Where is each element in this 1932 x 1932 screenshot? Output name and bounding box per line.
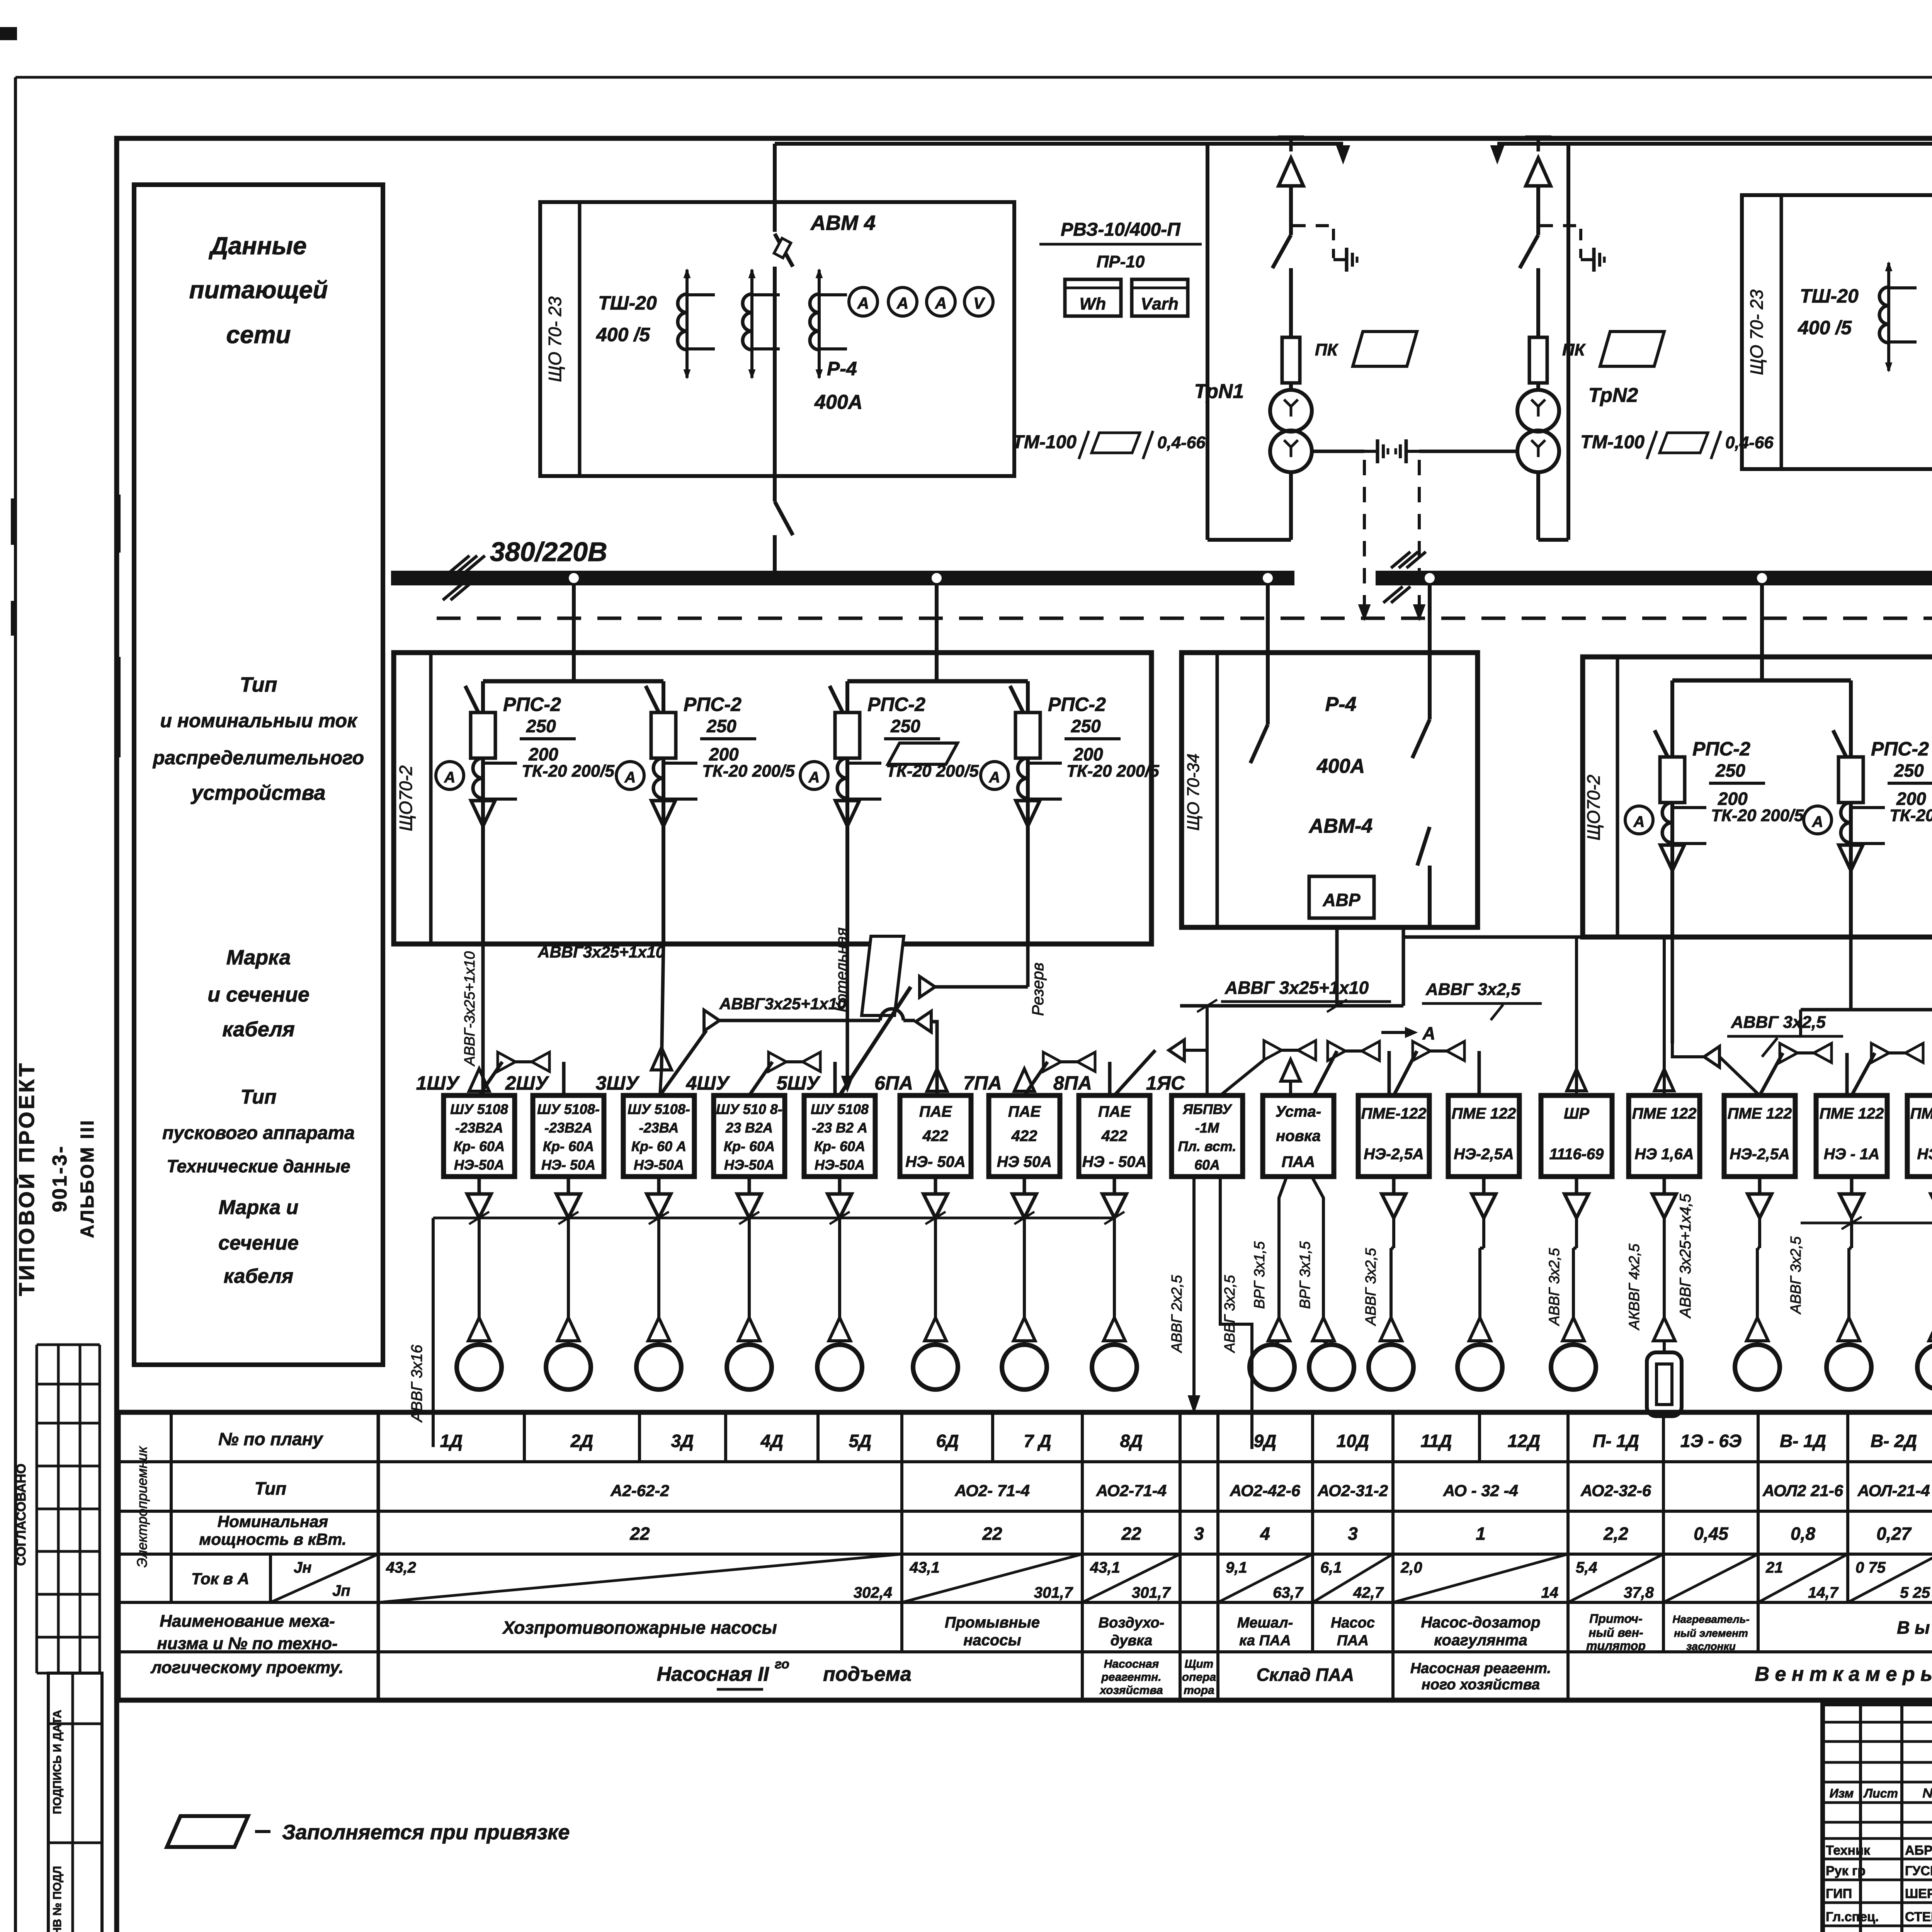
svg-text:Пл. вст.: Пл. вст. — [1178, 1138, 1236, 1154]
svg-text:ВРГ 3х1,5: ВРГ 3х1,5 — [1252, 1241, 1268, 1309]
svg-text:ПК: ПК — [1315, 340, 1339, 359]
svg-text:НЭ-50А: НЭ-50А — [634, 1157, 684, 1173]
svg-text:реагентн.: реагентн. — [1101, 1671, 1161, 1684]
svg-text:ТК-20 200/5: ТК-20 200/5 — [886, 762, 979, 781]
svg-text:Wh: Wh — [1080, 294, 1106, 313]
svg-text:НЭ - 50А: НЭ - 50А — [1082, 1153, 1147, 1170]
svg-text:400 /5: 400 /5 — [1798, 317, 1852, 338]
svg-text:250: 250 — [526, 716, 556, 736]
svg-text:А: А — [1422, 1023, 1435, 1043]
svg-text:А: А — [896, 294, 908, 312]
svg-text:хозяйства: хозяйства — [1099, 1684, 1163, 1697]
svg-text:В- 2Д: В- 2Д — [1871, 1431, 1917, 1451]
svg-text:А: А — [857, 294, 869, 312]
svg-text:12Д: 12Д — [1508, 1431, 1540, 1451]
svg-text:Данные: Данные — [208, 232, 306, 260]
svg-text:400А: 400А — [814, 391, 862, 413]
svg-text:новка: новка — [1276, 1128, 1321, 1145]
svg-text:ный элемент: ный элемент — [1674, 1627, 1748, 1639]
svg-text:43,1: 43,1 — [1090, 1559, 1120, 1576]
svg-text:ШУ 5108-: ШУ 5108- — [628, 1101, 690, 1117]
svg-text:АВВГ3х25+1х10: АВВГ3х25+1х10 — [537, 943, 665, 961]
svg-text:Наименование меха-: Наименование меха- — [160, 1612, 335, 1631]
svg-text:Кр- 60А: Кр- 60А — [543, 1138, 594, 1154]
svg-text:ПАА: ПАА — [1282, 1153, 1315, 1170]
svg-text:ШУ 5108: ШУ 5108 — [450, 1101, 508, 1117]
svg-text:-23В2А: -23В2А — [455, 1120, 503, 1136]
svg-text:ПК: ПК — [1562, 340, 1586, 359]
svg-text:Кр- 60А: Кр- 60А — [454, 1138, 505, 1154]
svg-text:РПС-2: РПС-2 — [684, 694, 742, 715]
svg-text:4ШУ: 4ШУ — [686, 1072, 731, 1094]
svg-text:сети: сети — [226, 321, 291, 349]
svg-text:ПР-10: ПР-10 — [1097, 252, 1145, 271]
svg-text:Р-4: Р-4 — [827, 358, 857, 379]
svg-text:ГУСЕВА: ГУСЕВА — [1905, 1864, 1932, 1878]
svg-text:10Д: 10Д — [1337, 1431, 1369, 1451]
svg-text:1116-69: 1116-69 — [1549, 1146, 1604, 1163]
svg-text:ный вен-: ный вен- — [1588, 1626, 1643, 1639]
svg-text:42,7: 42,7 — [1353, 1584, 1384, 1601]
svg-text:ШЕРСТЯКОВА: ШЕРСТЯКОВА — [1905, 1886, 1932, 1901]
svg-text:ТИПОВОЙ ПРОЕКТ: ТИПОВОЙ ПРОЕКТ — [14, 1061, 39, 1296]
svg-text:ГИП: ГИП — [1826, 1886, 1852, 1901]
svg-text:7 Д: 7 Д — [1024, 1431, 1051, 1451]
svg-text:Тип: Тип — [240, 1086, 276, 1108]
svg-text:Промывные: Промывные — [945, 1614, 1040, 1631]
svg-text:тилятор: тилятор — [1586, 1639, 1646, 1653]
svg-text:НЭ- 50А: НЭ- 50А — [541, 1157, 595, 1173]
svg-text:А2-62-2: А2-62-2 — [610, 1481, 669, 1500]
svg-text:Рук гр: Рук гр — [1826, 1864, 1866, 1878]
svg-text:АВВГ3х25+1х10: АВВГ3х25+1х10 — [719, 995, 846, 1013]
svg-text:АВВГ-3х25+1х10: АВВГ-3х25+1х10 — [462, 951, 478, 1066]
svg-text:АВМ-4: АВМ-4 — [1308, 815, 1373, 837]
svg-text:НЭ- 50А: НЭ- 50А — [905, 1153, 965, 1170]
svg-text:АОЛ-21-4: АОЛ-21-4 — [1857, 1481, 1930, 1500]
svg-text:1Э - 6Э: 1Э - 6Э — [1680, 1431, 1742, 1451]
svg-text:ТрN2: ТрN2 — [1588, 384, 1638, 406]
svg-text:ПОДПИСЬ И ДАТА: ПОДПИСЬ И ДАТА — [51, 1710, 64, 1814]
svg-text:43,2: 43,2 — [386, 1559, 416, 1576]
svg-text:901-3-: 901-3- — [49, 1145, 71, 1212]
svg-text:АВВГ 3х2,5: АВВГ 3х2,5 — [1425, 980, 1520, 999]
svg-text:Кр- 60А: Кр- 60А — [724, 1138, 775, 1154]
svg-text:1ШУ: 1ШУ — [416, 1072, 461, 1094]
svg-text:го: го — [775, 1657, 789, 1672]
svg-text:3ШУ: 3ШУ — [596, 1072, 640, 1094]
svg-text:14,7: 14,7 — [1808, 1584, 1839, 1601]
svg-text:АВВГ 3х2,5: АВВГ 3х2,5 — [1731, 1013, 1826, 1032]
svg-text:8Д: 8Д — [1120, 1431, 1143, 1451]
svg-text:подъема: подъема — [823, 1663, 912, 1685]
svg-text:400А: 400А — [1316, 755, 1365, 777]
svg-text:мощность в кВт.: мощность в кВт. — [199, 1530, 346, 1548]
svg-text:тора: тора — [1184, 1684, 1214, 1697]
svg-text:дувка: дувка — [1111, 1633, 1152, 1649]
svg-text:ТМ-100: ТМ-100 — [1580, 432, 1645, 452]
svg-text:ПМЕ-122: ПМЕ-122 — [1361, 1105, 1427, 1122]
svg-text:-23ВА: -23ВА — [639, 1120, 679, 1136]
svg-text:2ШУ: 2ШУ — [505, 1072, 550, 1094]
svg-text:250: 250 — [706, 716, 736, 736]
svg-text:Мешал-: Мешал- — [1237, 1615, 1293, 1631]
svg-text:Насосная реагент.: Насосная реагент. — [1410, 1660, 1551, 1677]
svg-text:4: 4 — [1260, 1524, 1270, 1544]
svg-text:ного хозяйства: ного хозяйства — [1422, 1677, 1540, 1693]
svg-text:В- 1Д: В- 1Д — [1780, 1431, 1826, 1451]
svg-text:3: 3 — [1194, 1524, 1204, 1544]
svg-text:ЩО 70- 23: ЩО 70- 23 — [1747, 289, 1767, 375]
svg-text:АВВГ 3х2,5: АВВГ 3х2,5 — [1363, 1248, 1379, 1326]
svg-text:Кр- 60А: Кр- 60А — [814, 1138, 865, 1154]
svg-text:ка ПАА: ка ПАА — [1239, 1633, 1291, 1649]
svg-text:и сечение: и сечение — [207, 983, 310, 1006]
svg-text:ПМЕ 122: ПМЕ 122 — [1632, 1105, 1697, 1122]
svg-text:ШУ 5108: ШУ 5108 — [811, 1101, 869, 1117]
svg-text:насосы: насосы — [963, 1632, 1021, 1649]
svg-text:Технические данные: Технические данные — [167, 1156, 350, 1176]
svg-text:ПАЕ: ПАЕ — [919, 1103, 952, 1120]
svg-text:коагулянта: коагулянта — [1434, 1632, 1527, 1649]
svg-text:7ПА: 7ПА — [963, 1072, 1002, 1094]
svg-text:Электроприемник: Электроприемник — [134, 1446, 150, 1567]
svg-text:6Д: 6Д — [936, 1431, 959, 1451]
svg-text:ПМЕ 122: ПМЕ 122 — [1452, 1105, 1516, 1122]
svg-text:Уста-: Уста- — [1276, 1103, 1321, 1120]
svg-text:Нагреватель-: Нагреватель- — [1672, 1613, 1749, 1625]
svg-text:Насос: Насос — [1331, 1615, 1375, 1631]
svg-text:ПМЕ 122: ПМЕ 122 — [1820, 1105, 1884, 1122]
svg-text:2,2: 2,2 — [1603, 1524, 1628, 1544]
svg-text:пускового аппарата: пускового аппарата — [162, 1123, 355, 1143]
svg-text:43,1: 43,1 — [909, 1559, 940, 1576]
svg-text:А: А — [808, 769, 820, 786]
svg-text:НЭ - 1А: НЭ - 1А — [1824, 1146, 1879, 1163]
svg-text:Р-4: Р-4 — [1325, 693, 1357, 716]
svg-text:Приточ-: Приточ- — [1589, 1612, 1642, 1626]
svg-text:250: 250 — [1894, 760, 1924, 781]
svg-text:ШР: ШР — [1564, 1105, 1589, 1122]
svg-text:Тип: Тип — [240, 673, 277, 696]
svg-text:ЩО 70-34: ЩО 70-34 — [1184, 753, 1203, 831]
svg-text:22: 22 — [629, 1524, 650, 1544]
svg-text:АВМ 4: АВМ 4 — [810, 211, 876, 235]
svg-text:АВВГ 3х2,5: АВВГ 3х2,5 — [1546, 1248, 1563, 1326]
svg-text:6ПА: 6ПА — [874, 1072, 913, 1094]
svg-text:сечение: сечение — [218, 1232, 299, 1254]
svg-text:Номинальная: Номинальная — [218, 1512, 328, 1531]
svg-text:2Д: 2Д — [570, 1431, 594, 1451]
svg-text:ЩО70-2: ЩО70-2 — [396, 765, 416, 831]
svg-text:Насосная: Насосная — [1104, 1658, 1159, 1670]
svg-text:60А: 60А — [1194, 1157, 1220, 1173]
svg-text:АО2-71-4: АО2-71-4 — [1096, 1481, 1167, 1500]
svg-text:В е н т к а м е р ы: В е н т к а м е р ы — [1755, 1663, 1932, 1685]
svg-text:2,0: 2,0 — [1400, 1559, 1422, 1576]
svg-text:5ШУ: 5ШУ — [777, 1072, 821, 1094]
svg-text:ШУ 510 8-: ШУ 510 8- — [716, 1101, 782, 1117]
svg-text:Гл.спец.: Гл.спец. — [1826, 1910, 1879, 1924]
svg-text:Резерв: Резерв — [1029, 963, 1047, 1016]
svg-text:422: 422 — [1011, 1128, 1037, 1145]
svg-text:АО2-32-6: АО2-32-6 — [1580, 1481, 1651, 1500]
svg-text:питающей: питающей — [189, 276, 328, 304]
svg-text:П- 1Д: П- 1Д — [1593, 1431, 1639, 1451]
svg-text:СОГЛАСОВАНО: СОГЛАСОВАНО — [14, 1464, 29, 1566]
svg-text:АВВГ 3х2,5: АВВГ 3х2,5 — [1222, 1275, 1238, 1353]
svg-text:0,4-66: 0,4-66 — [1725, 433, 1774, 452]
svg-text:5 25: 5 25 — [1900, 1584, 1930, 1601]
svg-text:0 75: 0 75 — [1855, 1559, 1886, 1576]
svg-text:АОЛ2 21-6: АОЛ2 21-6 — [1762, 1481, 1844, 1500]
svg-text:и номинальныи ток: и номинальныи ток — [160, 710, 358, 731]
svg-text:Ток в А: Ток в А — [191, 1570, 249, 1588]
svg-text:ШУ 5108-: ШУ 5108- — [537, 1101, 600, 1117]
svg-text:63,7: 63,7 — [1273, 1584, 1304, 1601]
svg-text:ЯБПВУ: ЯБПВУ — [1182, 1101, 1232, 1117]
svg-text:ПАЕ: ПАЕ — [1008, 1103, 1041, 1120]
svg-text:АО2-31-2: АО2-31-2 — [1317, 1481, 1388, 1500]
svg-text:250: 250 — [890, 716, 920, 736]
svg-text:ТрN1: ТрN1 — [1194, 380, 1244, 403]
svg-text:0,27: 0,27 — [1876, 1524, 1912, 1544]
svg-text:АО - 32 -4: АО - 32 -4 — [1443, 1481, 1518, 1500]
svg-text:ТК-20 200/5: ТК-20 200/5 — [1711, 806, 1804, 825]
svg-text:Воздухо-: Воздухо- — [1099, 1615, 1165, 1631]
svg-text:А: А — [989, 769, 1000, 786]
svg-text:ПАЕ: ПАЕ — [1098, 1103, 1131, 1120]
svg-text:ИНВ № ПОДЛ: ИНВ № ПОДЛ — [51, 1866, 64, 1932]
svg-text:0,45: 0,45 — [1694, 1524, 1729, 1544]
svg-text:НЭ- 1А: НЭ- 1А — [1917, 1146, 1932, 1163]
svg-text:АБРОСИМОВА: АБРОСИМОВА — [1905, 1843, 1932, 1858]
svg-text:опера: опера — [1182, 1671, 1216, 1684]
svg-text:АО2-42-6: АО2-42-6 — [1230, 1481, 1301, 1500]
svg-text:АО2- 71-4: АО2- 71-4 — [954, 1481, 1030, 1500]
svg-text:-23В2А: -23В2А — [544, 1120, 592, 1136]
svg-text:21: 21 — [1765, 1559, 1783, 1576]
svg-text:250: 250 — [1071, 716, 1101, 736]
svg-text:АКВВГ 4х2,5: АКВВГ 4х2,5 — [1626, 1243, 1643, 1330]
svg-text:ВРГ 3х1,5: ВРГ 3х1,5 — [1297, 1241, 1313, 1309]
svg-text:ТК-20 200/5: ТК-20 200/5 — [1889, 806, 1932, 825]
svg-text:-1М: -1М — [1195, 1120, 1219, 1136]
svg-text:23 В2А: 23 В2А — [725, 1120, 773, 1136]
svg-text:422: 422 — [1101, 1128, 1128, 1145]
svg-text:0,4-66: 0,4-66 — [1157, 433, 1206, 452]
svg-text:301,7: 301,7 — [1034, 1584, 1073, 1601]
svg-text:АЛЬБОМ III: АЛЬБОМ III — [77, 1119, 98, 1238]
svg-text:22: 22 — [1121, 1524, 1141, 1544]
svg-text:НЭ-50А: НЭ-50А — [724, 1157, 774, 1173]
svg-text:Vаrh: Vаrh — [1141, 294, 1179, 313]
svg-text:заслонки: заслонки — [1686, 1640, 1736, 1652]
svg-text:Марка и: Марка и — [219, 1196, 299, 1219]
svg-text:СТЕПАНЕНКО: СТЕПАНЕНКО — [1905, 1910, 1932, 1924]
svg-text:РПС-2: РПС-2 — [1048, 694, 1106, 715]
svg-text:Изм: Изм — [1830, 1786, 1854, 1800]
svg-text:АВВГ 3х25+1х4,5: АВВГ 3х25+1х4,5 — [1677, 1194, 1694, 1319]
svg-text:ПАА: ПАА — [1337, 1633, 1369, 1649]
svg-text:8ПА: 8ПА — [1053, 1072, 1092, 1094]
svg-text:ТШ-20: ТШ-20 — [598, 292, 657, 314]
svg-text:1: 1 — [1476, 1524, 1486, 1544]
svg-text:Хозпротивопожарные насосы: Хозпротивопожарные насосы — [502, 1617, 777, 1638]
svg-text:РВЗ-10/400-П: РВЗ-10/400-П — [1061, 219, 1181, 240]
svg-text:Jп: Jп — [332, 1582, 350, 1599]
svg-text:V: V — [973, 294, 985, 312]
svg-text:В ы т я ж н ы е вентилято: В ы т я ж н ы е вентиляторы — [1897, 1617, 1932, 1638]
svg-text:400 /5: 400 /5 — [596, 324, 650, 345]
svg-text:ТК-20 200/5: ТК-20 200/5 — [1066, 762, 1159, 781]
svg-text:Jн: Jн — [294, 1559, 311, 1576]
svg-text:А: А — [444, 769, 456, 786]
svg-text:ЩО 70- 23: ЩО 70- 23 — [545, 296, 565, 382]
svg-text:ТК-20 200/5: ТК-20 200/5 — [522, 762, 614, 781]
svg-text:22: 22 — [982, 1524, 1002, 1544]
svg-text:НЭ-50А: НЭ-50А — [454, 1157, 504, 1173]
svg-text:1ЯС: 1ЯС — [1146, 1072, 1185, 1094]
svg-text:6,1: 6,1 — [1320, 1559, 1342, 1576]
svg-text:9,1: 9,1 — [1226, 1559, 1247, 1576]
svg-text:НЭ-2,5А: НЭ-2,5А — [1364, 1146, 1423, 1163]
svg-text:3: 3 — [1348, 1524, 1358, 1544]
svg-text:А: А — [935, 294, 947, 312]
svg-text:РПС-2: РПС-2 — [867, 694, 925, 715]
svg-text:301,7: 301,7 — [1132, 1584, 1171, 1601]
svg-text:НЭ-50А: НЭ-50А — [815, 1157, 865, 1173]
svg-text:№ докум.: № докум. — [1922, 1786, 1932, 1801]
svg-text:11Д: 11Д — [1421, 1431, 1452, 1451]
svg-text:Склад ПАА: Склад ПАА — [1257, 1665, 1354, 1685]
svg-text:логическому проекту.: логическому проекту. — [150, 1658, 344, 1677]
svg-text:АВВГ 3х25+1х10: АВВГ 3х25+1х10 — [1225, 978, 1369, 998]
svg-text:-23 В2 А: -23 В2 А — [812, 1120, 867, 1136]
svg-text:РПС-2: РПС-2 — [1871, 738, 1929, 760]
svg-text:5,4: 5,4 — [1576, 1559, 1597, 1576]
svg-text:ПМВ 122: ПМВ 122 — [1910, 1105, 1932, 1122]
svg-text:4Д: 4Д — [760, 1431, 784, 1451]
svg-text:5Д: 5Д — [849, 1431, 872, 1451]
svg-text:37,8: 37,8 — [1624, 1584, 1654, 1601]
svg-text:НЭ-2,5А: НЭ-2,5А — [1454, 1146, 1514, 1163]
svg-text:Лист: Лист — [1863, 1786, 1898, 1800]
svg-text:380/220В: 380/220В — [490, 537, 607, 567]
svg-text:низма и № по техно-: низма и № по техно- — [157, 1634, 337, 1653]
svg-text:РПС-2: РПС-2 — [503, 694, 561, 715]
svg-text:Щит: Щит — [1185, 1658, 1214, 1670]
svg-text:РПС-2: РПС-2 — [1692, 738, 1750, 760]
svg-text:А: А — [1633, 813, 1645, 830]
svg-text:ТМ-100: ТМ-100 — [1012, 432, 1077, 452]
svg-text:устройства: устройства — [190, 781, 325, 804]
svg-text:АВВГ 2х2,5: АВВГ 2х2,5 — [1169, 1275, 1185, 1353]
svg-text:250: 250 — [1715, 760, 1745, 781]
svg-text:0,8: 0,8 — [1791, 1524, 1815, 1544]
svg-text:НЭ 1,6А: НЭ 1,6А — [1634, 1146, 1694, 1163]
svg-text:Техник: Техник — [1826, 1843, 1871, 1858]
svg-text:А: А — [1812, 813, 1823, 830]
svg-text:ТШ-20: ТШ-20 — [1800, 285, 1859, 307]
svg-text:кабеля: кабеля — [222, 1018, 295, 1041]
svg-text:кабеля: кабеля — [224, 1265, 294, 1287]
svg-text:А: А — [624, 769, 636, 786]
svg-text:Заполняется при привязке: Заполняется при привязке — [282, 1821, 570, 1844]
svg-text:Марка: Марка — [226, 946, 291, 969]
svg-text:АВВГ 3х2,5: АВВГ 3х2,5 — [1788, 1236, 1804, 1315]
svg-text:Насос-дозатор: Насос-дозатор — [1421, 1614, 1540, 1631]
svg-text:ТК-20 200/5: ТК-20 200/5 — [702, 762, 795, 781]
svg-text:АВР: АВР — [1322, 890, 1360, 910]
svg-text:422: 422 — [922, 1128, 949, 1145]
svg-text:9Д: 9Д — [1254, 1431, 1277, 1451]
svg-text:Тип: Тип — [255, 1478, 287, 1498]
svg-text:302,4: 302,4 — [854, 1584, 892, 1601]
svg-text:№ по плану: № по плану — [218, 1429, 324, 1449]
svg-text:распределительного: распределительного — [152, 747, 364, 769]
svg-text:14: 14 — [1541, 1584, 1559, 1601]
svg-text:3Д: 3Д — [671, 1431, 694, 1451]
svg-text:ПМЕ 122: ПМЕ 122 — [1728, 1105, 1792, 1122]
svg-text:Насосная II: Насосная II — [657, 1663, 770, 1685]
svg-text:НЭ 50А: НЭ 50А — [997, 1153, 1052, 1170]
svg-text:Кр- 60 А: Кр- 60 А — [631, 1138, 686, 1154]
svg-text:1Д: 1Д — [440, 1431, 463, 1451]
svg-text:НЭ-2,5А: НЭ-2,5А — [1730, 1146, 1789, 1163]
svg-text:ЩО70-2: ЩО70-2 — [1583, 775, 1604, 840]
